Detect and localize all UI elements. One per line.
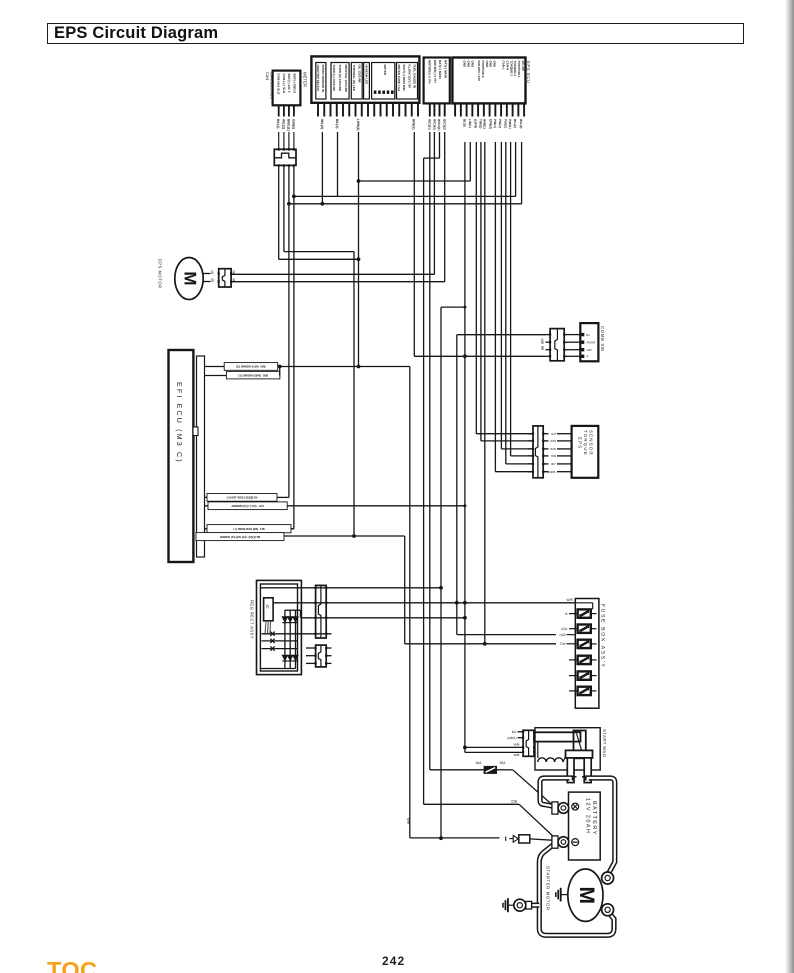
svg-text:METER: METER bbox=[302, 72, 307, 87]
svg-text:CAN-L(-) SLD: CAN-L(-) SLD bbox=[282, 74, 286, 95]
svg-text:G/P: G/P bbox=[551, 432, 556, 436]
svg-text:TORQUE-1: TORQUE-1 bbox=[509, 61, 513, 77]
svg-text:METER: METER bbox=[383, 65, 387, 76]
svg-text:(1)B: (1)B bbox=[559, 633, 565, 637]
svg-text:THERMAL (R) LED: THERMAL (R) LED bbox=[352, 65, 356, 92]
svg-text:GND: GND bbox=[493, 61, 497, 69]
svg-text:COMB SW: COMB SW bbox=[600, 326, 605, 352]
svg-text:R/C3(2): R/C3(2) bbox=[432, 119, 436, 130]
svg-text:EPS: EPS bbox=[578, 437, 583, 449]
svg-text:G/B: G/B bbox=[407, 818, 411, 824]
svg-text:B(1)E: B(1)E bbox=[462, 119, 466, 127]
svg-text:L/PB(1): L/PB(1) bbox=[356, 119, 360, 131]
svg-text:BR/L(1): BR/L(1) bbox=[286, 119, 290, 131]
svg-text:BATT(+) MEM B/W: BATT(+) MEM B/W bbox=[402, 65, 406, 91]
svg-text:B/L(1): B/L(1) bbox=[276, 119, 280, 128]
svg-text:M: M bbox=[181, 271, 200, 285]
svg-text:CAN-H: CAN-H bbox=[505, 61, 509, 71]
svg-text:W/B: W/B bbox=[514, 743, 520, 747]
svg-text:R/W: R/W bbox=[550, 439, 556, 443]
svg-text:(2)B(1): (2)B(1) bbox=[507, 736, 517, 740]
svg-text:T/W: T/W bbox=[560, 642, 566, 646]
svg-text:CAN: CAN bbox=[265, 72, 270, 80]
svg-text:B/Y: B/Y bbox=[551, 462, 556, 466]
svg-text:B/L: B/L bbox=[512, 730, 517, 734]
svg-text:CAN-L: CAN-L bbox=[502, 61, 506, 70]
svg-text:HI-BEAM LED: HI-BEAM LED bbox=[364, 65, 368, 85]
svg-text:(2)B: (2)B bbox=[511, 800, 518, 804]
svg-text:(2)W/L: (2)W/L bbox=[547, 470, 556, 474]
svg-text:DIAGNOSTICS: DIAGNOSTICS bbox=[270, 72, 275, 99]
svg-text:TORQUE: TORQUE bbox=[583, 430, 588, 456]
svg-text:IGNSW (CL)AS (C)+ (P)(1)TB: IGNSW (CL)AS (C)+ (P)(1)TB bbox=[220, 535, 261, 539]
svg-text:(2): (2) bbox=[211, 279, 215, 282]
svg-text:BAT(-) GND E: BAT(-) GND E bbox=[293, 74, 297, 94]
svg-text:30A: 30A bbox=[500, 761, 507, 765]
svg-text:METER FUSE 7.5A: METER FUSE 7.5A bbox=[397, 65, 401, 92]
svg-text:BAT(+) MAIN: BAT(+) MAIN bbox=[438, 60, 442, 80]
svg-text:BR: BR bbox=[541, 346, 545, 350]
svg-text:(2)G: (2)G bbox=[561, 627, 568, 631]
svg-text:GND: GND bbox=[470, 61, 474, 69]
svg-text:B/C3(2): B/C3(2) bbox=[443, 119, 447, 130]
svg-text:P/S(2): P/S(2) bbox=[503, 119, 507, 128]
svg-text:MOTOR(-) V PH: MOTOR(-) V PH bbox=[433, 60, 437, 83]
svg-text:POSITION-1: POSITION-1 bbox=[517, 61, 521, 78]
svg-text:BATTERY: BATTERY bbox=[591, 801, 597, 836]
svg-text:REG RECT ASSY: REG RECT ASSY bbox=[250, 600, 255, 639]
svg-text:IC: IC bbox=[265, 605, 270, 609]
svg-text:(1)B: (1)B bbox=[541, 339, 545, 344]
svg-text:(-) NOT-RX2 (12)(2)YN: (-) NOT-RX2 (12)(2)YN bbox=[227, 496, 258, 500]
svg-text:VR-+8V: VR-+8V bbox=[521, 61, 525, 72]
svg-text:NEUTRAL 12V3.4W: NEUTRAL 12V3.4W bbox=[344, 65, 348, 93]
svg-text:MOTOR(+) U PH: MOTOR(+) U PH bbox=[427, 60, 431, 84]
svg-text:TURN (L) 12V3.4W: TURN (L) 12V3.4W bbox=[332, 65, 336, 91]
svg-text:GND: GND bbox=[489, 61, 493, 69]
svg-text:CAN-H(+) SLD: CAN-H(+) SLD bbox=[276, 74, 280, 96]
svg-text:(1): (1) bbox=[232, 271, 236, 274]
svg-text:R/B: R/B bbox=[551, 454, 556, 458]
svg-text:(+) REIN-RX2 (26) T/B: (+) REIN-RX2 (26) T/B bbox=[233, 527, 265, 531]
svg-text:W/B: W/B bbox=[514, 753, 520, 757]
svg-text:FUSE BOX ASS'Y: FUSE BOX ASS'Y bbox=[600, 604, 606, 669]
svg-text:B/W: B/W bbox=[551, 447, 557, 451]
svg-text:EFI ECU (M3 C): EFI ECU (M3 C) bbox=[175, 382, 183, 464]
svg-text:G/R: G/R bbox=[587, 348, 592, 352]
svg-text:(2)P/B: (2)P/B bbox=[474, 119, 478, 129]
svg-text:GND: GND bbox=[485, 61, 489, 69]
svg-text:G/B(2): G/B(2) bbox=[291, 119, 295, 129]
svg-text:R: R bbox=[587, 355, 589, 359]
svg-text:R/W(1): R/W(1) bbox=[412, 119, 416, 129]
svg-text:TURN (R) 12V3.4W: TURN (R) 12V3.4W bbox=[338, 65, 342, 92]
svg-text:EPS ECU: EPS ECU bbox=[526, 61, 531, 84]
svg-text:EPB(2): EPB(2) bbox=[488, 119, 492, 129]
svg-text:JIGNON (C)+ (YO) - A/V: JIGNON (C)+ (YO) - A/V bbox=[231, 504, 264, 508]
svg-text:STARTER MOTOR: STARTER MOTOR bbox=[546, 866, 551, 911]
svg-text:EPS MOTOR: EPS MOTOR bbox=[158, 259, 163, 289]
svg-text:P/G(1): P/G(1) bbox=[498, 119, 502, 128]
svg-text:P/W(1): P/W(1) bbox=[508, 119, 512, 129]
svg-text:P/B(1): P/B(1) bbox=[493, 119, 497, 128]
svg-text:BAT(+) 12V F: BAT(+) 12V F bbox=[287, 74, 291, 93]
svg-text:R/C3(1): R/C3(1) bbox=[428, 119, 432, 130]
svg-text:B+: B+ bbox=[587, 333, 591, 337]
svg-text:30A: 30A bbox=[475, 761, 482, 765]
svg-text:(2): (2) bbox=[232, 279, 236, 282]
svg-text:L/B(1): L/B(1) bbox=[468, 119, 472, 128]
svg-text:START MAG: START MAG bbox=[602, 729, 607, 757]
svg-text:GND: GND bbox=[466, 61, 470, 69]
svg-text:ODO/TRIP SELECT: ODO/TRIP SELECT bbox=[316, 65, 320, 92]
svg-text:BAT(-) MAIN: BAT(-) MAIN bbox=[444, 60, 448, 79]
svg-text:(1) ORIGIN (SW) G/B: (1) ORIGIN (SW) G/B bbox=[238, 373, 269, 377]
svg-text:T/W(2): T/W(2) bbox=[478, 119, 482, 128]
svg-text:AV/OR: AV/OR bbox=[587, 340, 596, 344]
svg-text:B/L(2): B/L(2) bbox=[513, 119, 517, 128]
svg-text:TORQUE-2: TORQUE-2 bbox=[513, 61, 517, 77]
svg-text:W/C3(1): W/C3(1) bbox=[437, 119, 441, 131]
svg-text:W/R(1): W/R(1) bbox=[482, 119, 486, 129]
svg-text:12V 20AH: 12V 20AH bbox=[585, 798, 591, 834]
svg-text:ILLUMI 12V1.7W: ILLUMI 12V1.7W bbox=[407, 65, 411, 88]
svg-text:W/L(2): W/L(2) bbox=[519, 119, 523, 128]
svg-text:SPEED SENSOR IN: SPEED SENSOR IN bbox=[321, 65, 325, 93]
svg-text:OIL 12V3.4W: OIL 12V3.4W bbox=[357, 65, 361, 83]
svg-text:B: B bbox=[565, 612, 567, 616]
svg-text:IGN-KEY-+12V: IGN-KEY-+12V bbox=[477, 61, 481, 81]
svg-text:W/R: W/R bbox=[566, 598, 573, 602]
svg-text:(2) ORIGIN (1W) G/B: (2) ORIGIN (1W) G/B bbox=[236, 365, 266, 369]
svg-text:SENSOR: SENSOR bbox=[589, 430, 594, 456]
svg-text:FUEL GAUGE IN: FUEL GAUGE IN bbox=[413, 65, 417, 88]
svg-text:W/L(2): W/L(2) bbox=[320, 119, 324, 129]
svg-text:W/L(2): W/L(2) bbox=[281, 119, 285, 129]
svg-text:B/L(1): B/L(1) bbox=[335, 119, 339, 128]
svg-text:(1): (1) bbox=[211, 271, 215, 274]
svg-text:M: M bbox=[575, 886, 598, 904]
svg-text:POSITION-2: POSITION-2 bbox=[481, 61, 485, 78]
svg-text:GND: GND bbox=[463, 61, 467, 69]
